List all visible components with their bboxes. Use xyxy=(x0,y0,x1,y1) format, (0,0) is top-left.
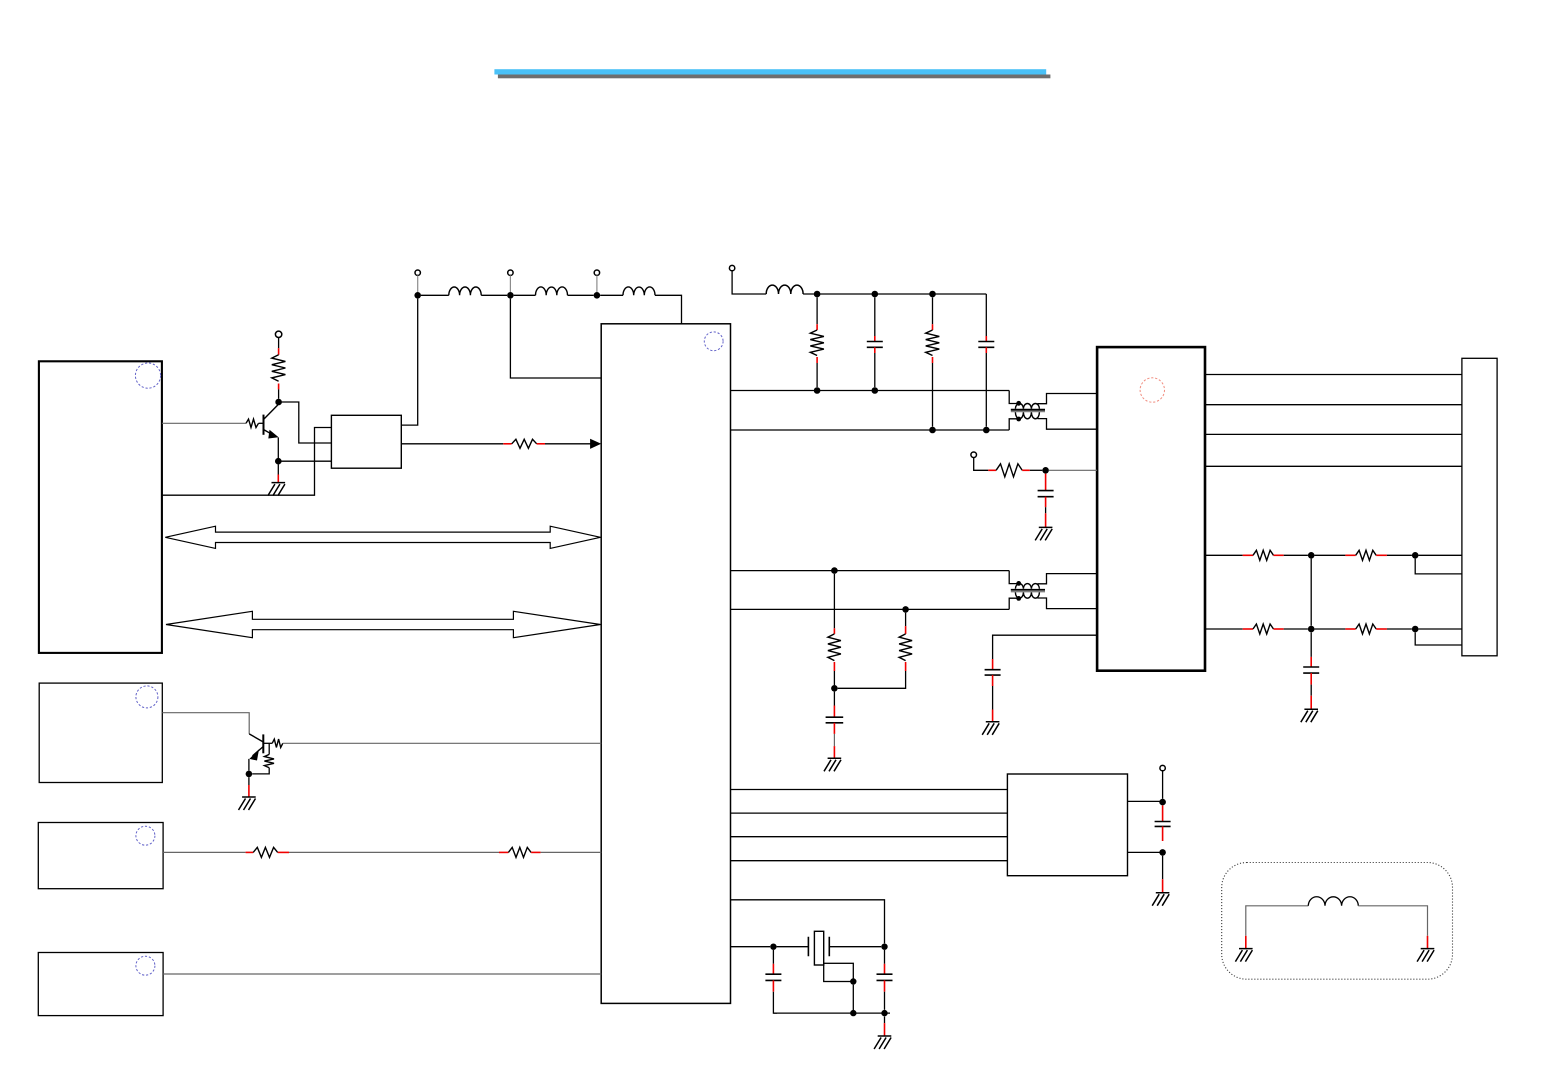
revision circle on U1 xyxy=(135,363,160,388)
wire crystal to node X2 xyxy=(829,946,881,948)
wire node G to U4 xyxy=(1049,469,1097,471)
wire U3 to U5 (pin a) xyxy=(731,789,1008,791)
wire C4 ground lead xyxy=(833,734,835,746)
wire U1 pin1 to R2 (base lead) xyxy=(162,422,246,424)
wire node H down xyxy=(833,574,835,628)
capacitor C5 xyxy=(985,670,1001,675)
wire TP1 to R1 xyxy=(278,338,280,349)
transistor Q2 (NPN) xyxy=(249,734,263,761)
node N xyxy=(1412,626,1419,633)
wire railA (U3 to T2 top) xyxy=(731,570,1010,572)
red lead bottom of C3 xyxy=(1045,497,1047,508)
transformer T1 xyxy=(1009,391,1097,431)
node rail/C9 xyxy=(881,1010,887,1016)
revision circle on U8 xyxy=(136,956,155,975)
stem TP2 xyxy=(417,275,419,292)
wire C5 ground lead xyxy=(992,686,994,710)
resistor R1 (collector pull-up) xyxy=(272,355,286,381)
node L xyxy=(1412,552,1419,559)
red lead to GND9 xyxy=(1245,936,1247,949)
wire L1 to node B xyxy=(481,294,507,296)
ground GND7 xyxy=(1152,893,1169,906)
resistor R10 xyxy=(996,464,1022,477)
wire node L to J1 (jog) xyxy=(1415,559,1462,574)
red lead bottom of C5 xyxy=(992,675,994,686)
wire U3 to crystal left xyxy=(731,946,771,948)
red lead right of R16 xyxy=(1376,628,1387,630)
wire node B to L2 xyxy=(514,294,536,296)
resistor R11 xyxy=(828,634,841,661)
block U2 (driver box) xyxy=(331,415,401,468)
wire R1 to collector node xyxy=(278,389,280,398)
node X2 (crystal right) xyxy=(881,944,887,950)
wire node K to R14 xyxy=(1315,554,1346,556)
wire U4 to J1 (pin 4) xyxy=(1205,465,1462,467)
capacitor C3 xyxy=(1038,491,1054,497)
dashed enclosure (ferrite bead option) xyxy=(1222,863,1453,980)
node emitter of Q2 xyxy=(246,771,253,778)
red lead to GND10 xyxy=(1427,936,1429,949)
bus arrow 1 (U1 to U3) xyxy=(165,526,600,548)
block U8 (lower-left 3) xyxy=(38,953,163,1016)
block U6 (lower-left 1) xyxy=(39,683,162,782)
red lead top of C5 xyxy=(992,659,994,670)
node K xyxy=(1308,552,1315,559)
stem TP3 xyxy=(509,275,511,292)
block U7 (lower-left 2) xyxy=(38,823,163,889)
ground GND5 xyxy=(982,722,999,735)
ground GND9 xyxy=(1235,949,1252,962)
wire U4 to J1 (pin 2) xyxy=(1205,404,1462,406)
wire U2 pin5 to R3 xyxy=(401,443,503,445)
terminal TP1 (supply above R1) xyxy=(275,331,281,337)
resistor R4 xyxy=(810,330,824,356)
red lead top of R1 xyxy=(278,348,280,355)
wire node Q down xyxy=(1162,856,1164,880)
wire R10 to node G xyxy=(1030,469,1043,471)
resistor R7 (base-emitter) xyxy=(264,754,274,767)
resistor R9 xyxy=(508,847,531,857)
resistor R16 xyxy=(1356,624,1377,634)
red lead left of R14 xyxy=(1345,554,1355,556)
red lead bottom of C1 xyxy=(874,347,876,353)
wire R2 to Q1 base xyxy=(259,422,264,424)
ground GND8 (crystal) xyxy=(874,1036,891,1049)
red lead top of R5 xyxy=(932,324,934,330)
red lead to GND1 xyxy=(277,475,279,483)
node C (chain junction 3) xyxy=(594,292,601,299)
wire emitter node to ground xyxy=(248,777,250,785)
wire U4 to J1 (pin 3) xyxy=(1205,433,1462,435)
title underline shadow (gray) xyxy=(498,75,1051,79)
red lead top of R12 xyxy=(905,626,907,634)
inductor L3 xyxy=(623,287,655,295)
wire node X1 to crystal xyxy=(777,946,809,948)
revision circle on U7 xyxy=(136,826,155,845)
wire node X2 down to C9 xyxy=(884,950,886,964)
wire node M down xyxy=(1310,632,1312,657)
capacitor C9 xyxy=(877,974,893,980)
wire R15 to node M xyxy=(1284,628,1308,630)
stem TP7 xyxy=(1162,771,1164,799)
wire R9 to U3 xyxy=(541,851,602,853)
red lead right of R10 xyxy=(1022,469,1030,471)
IC U4 (transformer driver, right) xyxy=(1097,347,1205,671)
wire node A down to U2 pin4 xyxy=(401,299,417,426)
revision circle on U4 xyxy=(1140,378,1164,402)
wire R8 to R9 xyxy=(289,851,499,853)
red lead right of R9 xyxy=(531,851,541,853)
wire node C to L3 xyxy=(600,294,623,296)
wire rail1 (U3 to T1 primary top) xyxy=(731,390,1010,392)
red lead to GND8 xyxy=(884,1023,886,1036)
node G (R10/C3) xyxy=(1042,467,1049,474)
node R4/rail1 xyxy=(814,387,821,394)
node P (C7 top) xyxy=(1159,799,1166,806)
node E (C1 top) xyxy=(872,291,879,298)
node D (R4 top) xyxy=(814,291,821,298)
capacitor C8 xyxy=(765,974,781,980)
wire U3 to U5 (pin c) xyxy=(731,836,1008,838)
resistor R6 (Q2 base, inline) xyxy=(272,739,283,747)
wire railB (U3 to T2 bottom) xyxy=(731,608,1010,610)
wire U5 to node P xyxy=(1128,800,1163,802)
resistor R14 xyxy=(1356,550,1377,560)
wire collector node to U2 pin2 xyxy=(279,402,332,443)
wire C9 to rail xyxy=(884,992,886,1010)
connector J1 (right edge) xyxy=(1462,358,1497,656)
red lead top of R11 xyxy=(833,628,835,634)
arrowhead into U3 xyxy=(590,439,601,449)
wire R11 to node J xyxy=(833,671,835,685)
wire U4 to J1 (pin 1) xyxy=(1205,374,1462,376)
wire node N to J1 (jog) xyxy=(1415,632,1462,645)
red lead right of R3 xyxy=(537,443,545,445)
wire crystal ground rail xyxy=(773,1012,890,1014)
ground GND1 (Q1 emitter) xyxy=(268,483,285,496)
wire L5 right xyxy=(1358,906,1427,936)
red lead to GND2 xyxy=(248,785,250,797)
terminal TP7 xyxy=(1160,765,1165,770)
wire U4 to R3a xyxy=(1205,554,1243,556)
red lead bottom of R4 xyxy=(816,357,818,363)
wire U1 pin2 to U2 pin1 xyxy=(162,428,332,496)
red lead right of R14 xyxy=(1376,554,1387,556)
terminal TP5 xyxy=(729,265,734,270)
terminal TP6 xyxy=(971,452,977,458)
capacitor C7 xyxy=(1155,822,1171,827)
node C1/rail1 xyxy=(872,387,879,394)
wire R13 to node K xyxy=(1284,554,1308,556)
wire Q2 emitter down xyxy=(248,759,250,771)
wire C6 ground lead xyxy=(1310,685,1312,696)
red lead left of R15a xyxy=(1243,628,1253,630)
wire node E down xyxy=(874,297,876,336)
wire node A to L1 xyxy=(421,294,449,296)
ground GND3 xyxy=(1035,527,1052,540)
red lead left of R8 xyxy=(246,851,254,853)
red upper lead C9 xyxy=(884,964,886,974)
red lead top of C3 xyxy=(1045,474,1047,490)
wire node X1 down xyxy=(772,950,774,964)
wire R14 to node L xyxy=(1387,554,1412,556)
resistor R2 (Q1 base, inline) xyxy=(246,419,259,427)
ground GND6 xyxy=(1301,709,1318,722)
wire R3 to arrow xyxy=(545,443,591,445)
wire U3 to crystal right (top loop) xyxy=(731,900,885,944)
node C2/rail2 xyxy=(983,427,990,434)
resistor R5 xyxy=(926,330,940,356)
red lead top of C6 xyxy=(1310,657,1312,667)
wire emitter node to U2 pin3 xyxy=(278,460,331,462)
resistor R13a xyxy=(1253,550,1274,560)
node I (railB/R12) xyxy=(902,606,909,613)
wire top rail corner down to C2 xyxy=(985,294,987,336)
wire R5 down to rail2 xyxy=(932,363,934,427)
wire C8 to rail corner xyxy=(773,992,777,1013)
wire U5 to node Q xyxy=(1128,851,1163,853)
red lead top of C1 xyxy=(874,336,876,342)
wire node L to J1 (straight) xyxy=(1419,554,1462,556)
transistor Q1 (NPN) xyxy=(264,405,279,439)
node emitter of Q1 xyxy=(275,458,282,465)
red lead right of R8 xyxy=(278,851,289,853)
wire Q2 base to R6 xyxy=(263,742,272,744)
terminal TP4 xyxy=(594,270,599,275)
red upper lead C8 xyxy=(772,964,774,974)
wire node B down to U3 pin (left) xyxy=(510,299,601,378)
wire node X3 down to rail xyxy=(852,985,854,1013)
wire R12 to node J xyxy=(838,671,906,688)
wire U7 to R8 xyxy=(163,851,246,853)
revision circle on U6 xyxy=(136,686,158,708)
revision circle on U3 xyxy=(704,332,723,351)
wire U6 to Q2 collector xyxy=(162,713,249,734)
wire node I down xyxy=(905,613,907,626)
block U5 (power module) xyxy=(1007,774,1127,876)
node M xyxy=(1308,626,1315,633)
red lead bottom of R12 xyxy=(905,662,907,671)
resistor R3 (series to U3) xyxy=(512,439,537,448)
wire L3 into U3 top xyxy=(655,295,682,324)
wire R6 to U3 xyxy=(283,742,601,744)
wire node F down xyxy=(932,297,934,324)
ground GND10 xyxy=(1417,949,1434,962)
red lead left of R3 xyxy=(503,443,511,445)
resistor R12 xyxy=(899,634,912,661)
node X3 (loop corner) xyxy=(850,978,856,984)
capacitor C6 xyxy=(1303,667,1319,673)
red lead left of R10 xyxy=(988,469,996,471)
wire L4 along top rail xyxy=(803,293,986,295)
red lead bottom of R11 xyxy=(833,662,835,671)
node A (chain junction 1) xyxy=(414,292,421,299)
wire rail to ground lead xyxy=(884,1016,886,1023)
red lead to GND7 xyxy=(1162,879,1164,893)
red lead to GND6 xyxy=(1310,696,1312,710)
IC U3 (main controller, center) xyxy=(601,324,730,1004)
red lead right of R13a xyxy=(1274,554,1284,556)
stem TP5 and corner xyxy=(732,271,766,294)
wire U4 to R5a xyxy=(1205,628,1243,630)
wire node K to node M xyxy=(1310,559,1312,626)
red lead bottom of C2 xyxy=(985,347,987,353)
inductor L4 xyxy=(766,285,803,294)
capacitor C1 xyxy=(867,342,883,348)
red lead left of R16 xyxy=(1345,628,1355,630)
wire U3 to U5 (pin b) xyxy=(731,812,1008,814)
node F (R5 top) xyxy=(929,291,936,298)
capacitor C4 xyxy=(826,717,844,723)
wire base branch down to R7 xyxy=(268,743,270,754)
node rail/X3 xyxy=(850,1010,856,1016)
capacitor C2 xyxy=(978,342,994,348)
wire node D down xyxy=(816,297,818,324)
wire R16 to node N xyxy=(1387,628,1412,630)
wire L5 left xyxy=(1246,906,1309,936)
bus arrow 2 (U1 to U3) xyxy=(166,611,600,637)
node Q (C7 bottom) xyxy=(1159,849,1166,856)
wire node J down xyxy=(833,692,835,706)
inductor L2 xyxy=(536,287,568,295)
wire U3 to U5 (pin d) xyxy=(731,860,1008,862)
node B (chain junction 2) xyxy=(507,292,514,299)
stem TP4 xyxy=(596,275,598,292)
red lead top of C2 xyxy=(985,336,987,342)
node R5/rail2 xyxy=(929,427,936,434)
red lead bottom of R1 xyxy=(278,384,280,390)
red lead top of C4 xyxy=(833,706,835,717)
red lead top of R4 xyxy=(816,324,818,330)
transformer T2 xyxy=(1009,571,1097,610)
wire C1 to rail1 xyxy=(874,353,876,387)
wire U8 to U3 xyxy=(163,973,601,975)
ground GND2 (Q2 emitter) xyxy=(239,797,256,810)
loop rectangle below crystal xyxy=(824,963,854,981)
block U1 (left controller) xyxy=(39,361,162,653)
wire Q1 emitter down xyxy=(277,438,279,459)
node X1 (crystal left) xyxy=(770,944,776,950)
terminal TP2 xyxy=(415,270,420,275)
red lead top of C7 xyxy=(1162,805,1164,821)
node J (R11/R12/C4) xyxy=(831,685,838,692)
red lead to GND4 xyxy=(833,746,835,758)
wire R4 to rail1 xyxy=(816,363,818,387)
wire C2 down to rail2 xyxy=(985,353,987,427)
red lead to GND5 xyxy=(992,710,994,722)
red lead right of R15a xyxy=(1274,628,1284,630)
wire emitter node to ground xyxy=(277,464,279,474)
resistor R15a xyxy=(1253,624,1274,634)
red lead bottom of C4 xyxy=(833,723,835,734)
wire node N to J1 (straight) xyxy=(1419,628,1462,630)
red lead left of R13a xyxy=(1243,554,1253,556)
inductor L1 xyxy=(449,287,481,295)
red lead bottom of R5 xyxy=(932,357,934,363)
red lead left of R9 xyxy=(499,851,508,853)
wire node M to R16 xyxy=(1315,628,1346,630)
red lead bottom of C8 xyxy=(772,980,774,991)
node H (railA/R11) xyxy=(831,567,838,574)
stem TP6 and corner xyxy=(974,458,989,471)
node collector of Q1 xyxy=(275,399,282,406)
ground GND4 xyxy=(824,758,841,771)
resistor R8 xyxy=(253,847,278,857)
red lead bottom of C9 xyxy=(884,980,886,991)
wire C3 to ground lead xyxy=(1045,507,1047,513)
wire rail2 (U3 to T1 primary bottom) xyxy=(731,429,1010,431)
wire L2 to node C xyxy=(568,294,594,296)
wire R7 to emitter node xyxy=(252,768,269,774)
inductor L5 xyxy=(1308,897,1358,906)
wire U4 pin to C5 xyxy=(993,635,1098,659)
red lead to GND3 xyxy=(1045,513,1047,527)
terminal TP3 xyxy=(508,270,513,275)
red lead bottom of C7 xyxy=(1162,826,1164,841)
title underline bar (blue) xyxy=(494,69,1046,74)
crystal Y1 xyxy=(808,931,829,965)
red lead below C6 xyxy=(1310,673,1312,685)
